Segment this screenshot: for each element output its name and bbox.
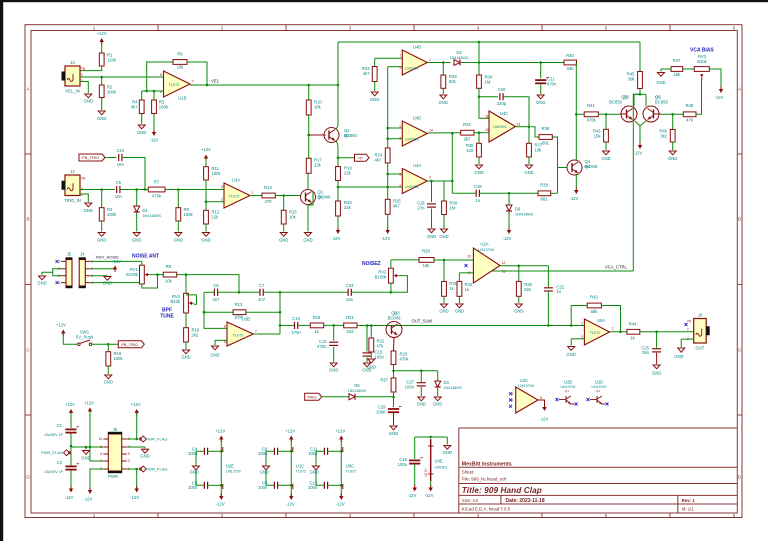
ground open	[678, 348, 685, 352]
svg-text:J5: J5	[67, 251, 72, 256]
wire R44 to J6	[640, 331, 694, 333]
svg-text:1N4148WS: 1N4148WS	[515, 212, 534, 216]
wire	[136, 213, 138, 232]
svg-text:2: 2	[100, 467, 102, 471]
junction	[570, 324, 573, 327]
resistor R10	[306, 100, 322, 116]
svg-text:22k: 22k	[344, 170, 352, 175]
svg-text:7: 7	[192, 80, 194, 84]
wire Q3 to R26	[393, 338, 396, 352]
transistor Q2	[324, 128, 357, 143]
svg-text:GND: GND	[524, 170, 533, 175]
wire U4B- to bus	[388, 66, 403, 68]
wire C19 left	[452, 192, 476, 194]
svg-text:GND: GND	[439, 309, 448, 314]
resistor R14	[262, 185, 275, 204]
svg-text:6: 6	[224, 324, 226, 328]
svg-text:6: 6	[100, 452, 102, 456]
junction	[547, 324, 550, 327]
wire U5A-	[571, 325, 584, 327]
no-connect	[509, 399, 512, 402]
wire U2A out	[500, 265, 548, 267]
svg-text:1: 1	[93, 26, 96, 31]
svg-text:GND: GND	[190, 470, 199, 475]
power +12V	[215, 429, 225, 442]
no-connect	[587, 398, 590, 401]
svg-text:2k2: 2k2	[660, 133, 667, 138]
svg-text:U3A: U3A	[232, 178, 240, 183]
svg-text:GND: GND	[367, 365, 376, 370]
capacitor C15	[363, 350, 385, 360]
no-connect	[606, 403, 609, 406]
svg-text:1M: 1M	[450, 205, 456, 210]
ground	[439, 304, 448, 314]
svg-text:LM13700: LM13700	[561, 385, 576, 389]
ground	[439, 95, 448, 105]
wire	[672, 142, 674, 150]
wire C16 top	[414, 437, 416, 459]
junction	[508, 192, 511, 195]
svg-text:GND: GND	[514, 309, 523, 314]
svg-text:-12V: -12V	[65, 495, 74, 500]
wire U4A out	[427, 180, 452, 182]
ground	[140, 449, 149, 458]
junction	[420, 370, 423, 373]
resistor R8	[163, 264, 176, 283]
resistor R19	[184, 328, 200, 343]
potentiometer RV1	[126, 265, 149, 284]
junction	[307, 134, 310, 137]
svg-text:1M: 1M	[485, 79, 491, 84]
wire R13 right	[246, 311, 280, 313]
svg-text:+12V: +12V	[285, 429, 295, 434]
svg-text:2: 2	[429, 176, 431, 180]
svg-text:Q2: Q2	[344, 133, 350, 138]
resistor R3	[99, 207, 117, 221]
connector J3	[62, 60, 86, 94]
svg-text:39n: 39n	[642, 350, 650, 355]
svg-text:GND: GND	[104, 380, 113, 385]
svg-text:TUNE: TUNE	[160, 314, 174, 320]
wire C16 row	[415, 436, 448, 438]
wire	[101, 221, 103, 232]
wire C24 to trig node	[122, 158, 145, 190]
wire Q5 base stub	[621, 113, 627, 115]
wire	[443, 260, 445, 281]
svg-text:BC850: BC850	[609, 100, 622, 105]
junction	[337, 156, 340, 159]
switch SW1	[76, 330, 94, 346]
wire Q1 emitter	[308, 192, 313, 232]
ground	[329, 363, 338, 373]
svg-text:100n: 100n	[308, 485, 318, 490]
junction	[100, 76, 103, 79]
wire R22 top	[370, 326, 372, 339]
wire RV4 wiper loop	[186, 295, 197, 304]
junction	[205, 200, 208, 203]
svg-text:4: 4	[477, 26, 480, 31]
svg-text:GND: GND	[652, 371, 661, 376]
wire cap left col	[266, 451, 274, 485]
wire VCA_CTRL up	[633, 94, 640, 271]
resistor R35	[466, 143, 482, 157]
junction	[85, 446, 88, 449]
ground	[536, 95, 545, 105]
svg-text:LM2901: LM2901	[493, 125, 507, 129]
svg-text:7: 7	[255, 330, 257, 334]
resistor R33	[461, 122, 474, 142]
svg-text:U5C: U5C	[346, 464, 354, 469]
svg-text:22n: 22n	[346, 297, 354, 302]
diode D3	[435, 380, 463, 390]
potentiometer RV4	[170, 293, 193, 313]
resistor R7	[148, 180, 165, 199]
svg-text:120k: 120k	[107, 57, 117, 62]
svg-text:C34: C34	[346, 283, 354, 288]
wire	[393, 413, 395, 425]
svg-text:U2E: U2E	[226, 464, 234, 469]
wire	[153, 91, 155, 100]
wire	[639, 89, 641, 95]
ground	[103, 277, 112, 286]
junction	[478, 131, 481, 134]
ground	[37, 276, 46, 286]
svg-text:2: 2	[581, 322, 583, 326]
svg-text:10k: 10k	[165, 278, 173, 283]
no-connect	[465, 264, 468, 267]
global label TRIG	[305, 393, 322, 400]
wire	[298, 324, 310, 326]
svg-text:U4A: U4A	[413, 163, 421, 168]
wire to RV4	[185, 275, 187, 294]
svg-text:R14: R14	[264, 185, 272, 190]
svg-text:LM2901: LM2901	[405, 138, 419, 142]
no-connect	[575, 403, 578, 406]
no-connect	[556, 398, 559, 401]
power -12V	[715, 87, 724, 101]
ground	[97, 233, 106, 243]
svg-text:C6: C6	[213, 283, 219, 288]
svg-text:470k: 470k	[400, 356, 410, 361]
svg-text:470k: 470k	[152, 194, 162, 199]
svg-text:TL072: TL072	[590, 331, 601, 335]
svg-text:-12V: -12V	[570, 196, 579, 201]
svg-text:R47: R47	[673, 58, 681, 63]
wire RSV_NOISE	[90, 260, 142, 262]
sheet edge shadow	[0, 0, 768, 2]
resistor R48	[683, 103, 696, 123]
svg-text:7: 7	[399, 54, 401, 58]
svg-text:B10k: B10k	[170, 299, 180, 304]
power -12V	[150, 130, 159, 143]
power -12V	[381, 228, 390, 242]
wire net VEL to U1B+	[80, 76, 164, 78]
ground	[81, 451, 90, 461]
wire	[177, 190, 179, 208]
transistor Q3	[386, 311, 402, 338]
resistor R2	[99, 85, 117, 98]
svg-text:22k: 22k	[212, 214, 220, 219]
wire to gnd	[680, 339, 682, 347]
svg-text:11: 11	[485, 115, 489, 119]
wire	[105, 157, 117, 159]
svg-text:10: 10	[98, 437, 102, 441]
junction	[386, 137, 389, 140]
svg-text:GND: GND	[84, 99, 93, 104]
power unit U2E	[223, 447, 241, 489]
resistor R13	[233, 302, 246, 319]
svg-text:-12V: -12V	[332, 236, 341, 241]
connector J8 PWR	[98, 427, 130, 479]
wire cap left col	[316, 451, 324, 485]
wire	[672, 114, 674, 129]
svg-text:Size: A4: Size: A4	[462, 498, 479, 503]
svg-text:470k: 470k	[586, 118, 596, 123]
wire U5C rail	[340, 439, 342, 498]
junction	[70, 445, 73, 448]
power +12V	[56, 323, 66, 337]
wire	[366, 326, 368, 352]
svg-text:OUT_SUM: OUT_SUM	[412, 319, 433, 324]
svg-text:470n: 470n	[547, 81, 557, 86]
wire cap bot	[278, 484, 291, 486]
capacitor C25	[641, 345, 661, 355]
wire	[660, 69, 662, 72]
wire	[528, 157, 530, 164]
resistor R1	[99, 53, 117, 67]
power -12V	[65, 486, 74, 500]
svg-text:+12V: +12V	[56, 323, 66, 328]
ground	[524, 165, 533, 175]
svg-text:GND: GND	[181, 355, 190, 360]
svg-text:TRIG: TRIG	[307, 395, 317, 400]
ground	[474, 165, 483, 175]
power unit U5C	[343, 447, 356, 489]
PWR_FLAG	[139, 466, 167, 472]
resistor R6	[173, 52, 187, 70]
wire to J8 row2	[71, 446, 103, 448]
op-amp U2C	[511, 378, 542, 413]
buffer U2B	[559, 379, 576, 404]
resistor R15	[281, 210, 297, 225]
wire C6-C7	[218, 291, 260, 293]
svg-text:+12V: +12V	[65, 402, 75, 407]
svg-text:GND: GND	[443, 450, 452, 455]
svg-text:1N4148WS: 1N4148WS	[348, 389, 367, 393]
capacitor C27	[405, 380, 426, 390]
svg-text:LM2901: LM2901	[405, 185, 419, 189]
wire U2E rail	[220, 439, 222, 498]
svg-text:3: 3	[349, 26, 352, 31]
svg-text:R27: R27	[380, 378, 388, 383]
junction	[135, 438, 138, 441]
wire	[443, 296, 445, 303]
svg-text:4k7: 4k7	[131, 104, 138, 109]
svg-text:NOISEZ: NOISEZ	[362, 261, 381, 267]
wire U4D+ to bus	[388, 127, 403, 129]
wire collector bridge	[634, 93, 646, 95]
ground	[263, 466, 270, 470]
svg-text:13: 13	[517, 122, 521, 126]
wire J4 pin3 gnd	[90, 275, 107, 277]
wire U4 minus bus	[387, 67, 389, 148]
wire	[101, 98, 103, 111]
wire J4 pin2 to +12V	[90, 268, 115, 269]
power unit U1C	[293, 447, 306, 489]
zone tick	[25, 153, 31, 155]
wire U3B out	[253, 333, 280, 335]
junction	[655, 331, 658, 334]
wire	[605, 114, 607, 129]
wire cap left col	[196, 451, 204, 485]
junction	[390, 291, 393, 294]
svg-text:1: 1	[429, 58, 431, 62]
svg-text:U4E: U4E	[435, 458, 443, 463]
wire long top bus	[338, 41, 640, 43]
svg-text:OUT: OUT	[696, 345, 705, 350]
resistor R31	[442, 281, 458, 296]
power +12V	[111, 259, 121, 272]
svg-text:J8: J8	[113, 427, 118, 432]
svg-text:-12V: -12V	[715, 95, 724, 100]
power -12V	[332, 228, 341, 242]
svg-text:GND: GND	[174, 238, 183, 243]
wire cap top	[278, 450, 291, 452]
ground	[601, 151, 610, 161]
svg-text:GND: GND	[439, 234, 448, 239]
wire	[571, 305, 587, 307]
junction	[153, 90, 156, 93]
wire R19-R20	[337, 181, 339, 202]
ground	[303, 233, 312, 243]
capacitor C19	[474, 184, 482, 203]
svg-text:3: 3	[128, 459, 130, 463]
svg-text:Q1: Q1	[318, 195, 324, 200]
svg-text:22k: 22k	[344, 205, 352, 210]
resistor R12	[204, 210, 220, 225]
svg-text:100n: 100n	[375, 354, 385, 359]
svg-text:R41: R41	[587, 103, 595, 108]
wire cap bot	[208, 484, 221, 486]
svg-text:1n: 1n	[475, 198, 480, 203]
wire cap top	[208, 450, 221, 452]
wire J5 pins 2-3	[53, 269, 61, 276]
power -12V	[336, 494, 345, 507]
zone tick	[25, 414, 31, 416]
transistor Q4	[567, 159, 598, 175]
svg-text:-12V: -12V	[540, 417, 549, 422]
svg-text:Title: 909 Hand Clap: Title: 909 Hand Clap	[462, 486, 542, 495]
wire	[80, 66, 102, 71]
svg-text:343: 343	[347, 329, 355, 334]
op-amp U5A	[581, 318, 614, 345]
svg-text:12: 12	[502, 261, 506, 265]
wire	[101, 77, 103, 85]
junction	[100, 188, 103, 191]
wire D4 cathode bus	[461, 62, 564, 64]
wire C6 to U3B-	[204, 292, 227, 328]
resistor R9	[176, 207, 194, 221]
svg-text:GND: GND	[536, 100, 545, 105]
wire RV4 to R19b	[185, 313, 187, 328]
wire U4E bottom	[430, 481, 432, 486]
wire R8 to BPF	[177, 275, 239, 293]
svg-text:U2A: U2A	[480, 241, 488, 246]
junction	[185, 273, 188, 276]
svg-text:10k: 10k	[423, 263, 431, 268]
wire Q2 base	[309, 134, 326, 136]
junction	[366, 324, 369, 327]
wire C34 to RV2	[352, 291, 391, 293]
wire	[518, 266, 520, 282]
svg-text:8: 8	[100, 445, 102, 449]
wire pot bottom loop	[142, 275, 158, 288]
power -12V	[408, 485, 417, 498]
svg-text:-12V: -12V	[84, 497, 93, 502]
wire	[324, 324, 344, 326]
wire SW1 to PB_TRIG	[92, 343, 119, 345]
wire	[420, 387, 422, 396]
svg-text:681: 681	[542, 141, 550, 146]
svg-text:T: T	[687, 328, 689, 332]
wire	[437, 371, 439, 381]
wire R6 to out	[187, 62, 207, 85]
svg-text:10k: 10k	[177, 65, 185, 70]
svg-text:GND: GND	[137, 130, 146, 135]
wire RV2 bottom	[390, 283, 392, 292]
connector J5	[58, 251, 72, 288]
svg-text:R7: R7	[154, 180, 160, 185]
svg-text:R44: R44	[629, 321, 637, 326]
wire J2 T	[80, 189, 115, 191]
wire	[333, 347, 335, 362]
svg-text:B: B	[738, 217, 741, 222]
svg-text:U4B: U4B	[413, 45, 421, 50]
wire out to R38	[531, 127, 539, 137]
wire VCA_CTRL	[493, 270, 634, 272]
junction	[220, 450, 223, 453]
junction	[429, 436, 432, 439]
wire feedback to R6	[147, 62, 173, 91]
power -12V	[503, 228, 512, 242]
op-amp U4A	[399, 163, 431, 194]
wire C7 right bus	[263, 291, 348, 293]
PWR_FLAG	[41, 450, 71, 456]
capacitor C21	[535, 77, 557, 87]
wire	[478, 63, 480, 76]
svg-text:GND: GND	[433, 402, 442, 407]
wire divider	[205, 180, 207, 210]
svg-text:J6: J6	[698, 312, 703, 317]
svg-text:6: 6	[733, 513, 736, 518]
junction	[619, 331, 622, 334]
svg-text:GND: GND	[84, 208, 93, 213]
svg-text:2: 2	[221, 26, 224, 31]
no-connect	[56, 260, 59, 263]
resistor R41	[584, 103, 598, 123]
svg-text:4: 4	[477, 513, 480, 518]
wire	[153, 114, 155, 131]
svg-text:GND: GND	[279, 238, 288, 243]
wire	[370, 352, 372, 358]
svg-text:U4C: U4C	[500, 111, 508, 116]
op-amp U4B	[399, 45, 431, 76]
svg-text:GND: GND	[140, 454, 149, 459]
power +12V	[285, 429, 295, 442]
svg-text:U3B: U3B	[242, 317, 250, 322]
svg-text:12 V+: 12 V+	[424, 468, 428, 477]
wire top bus down to R45	[639, 42, 641, 72]
